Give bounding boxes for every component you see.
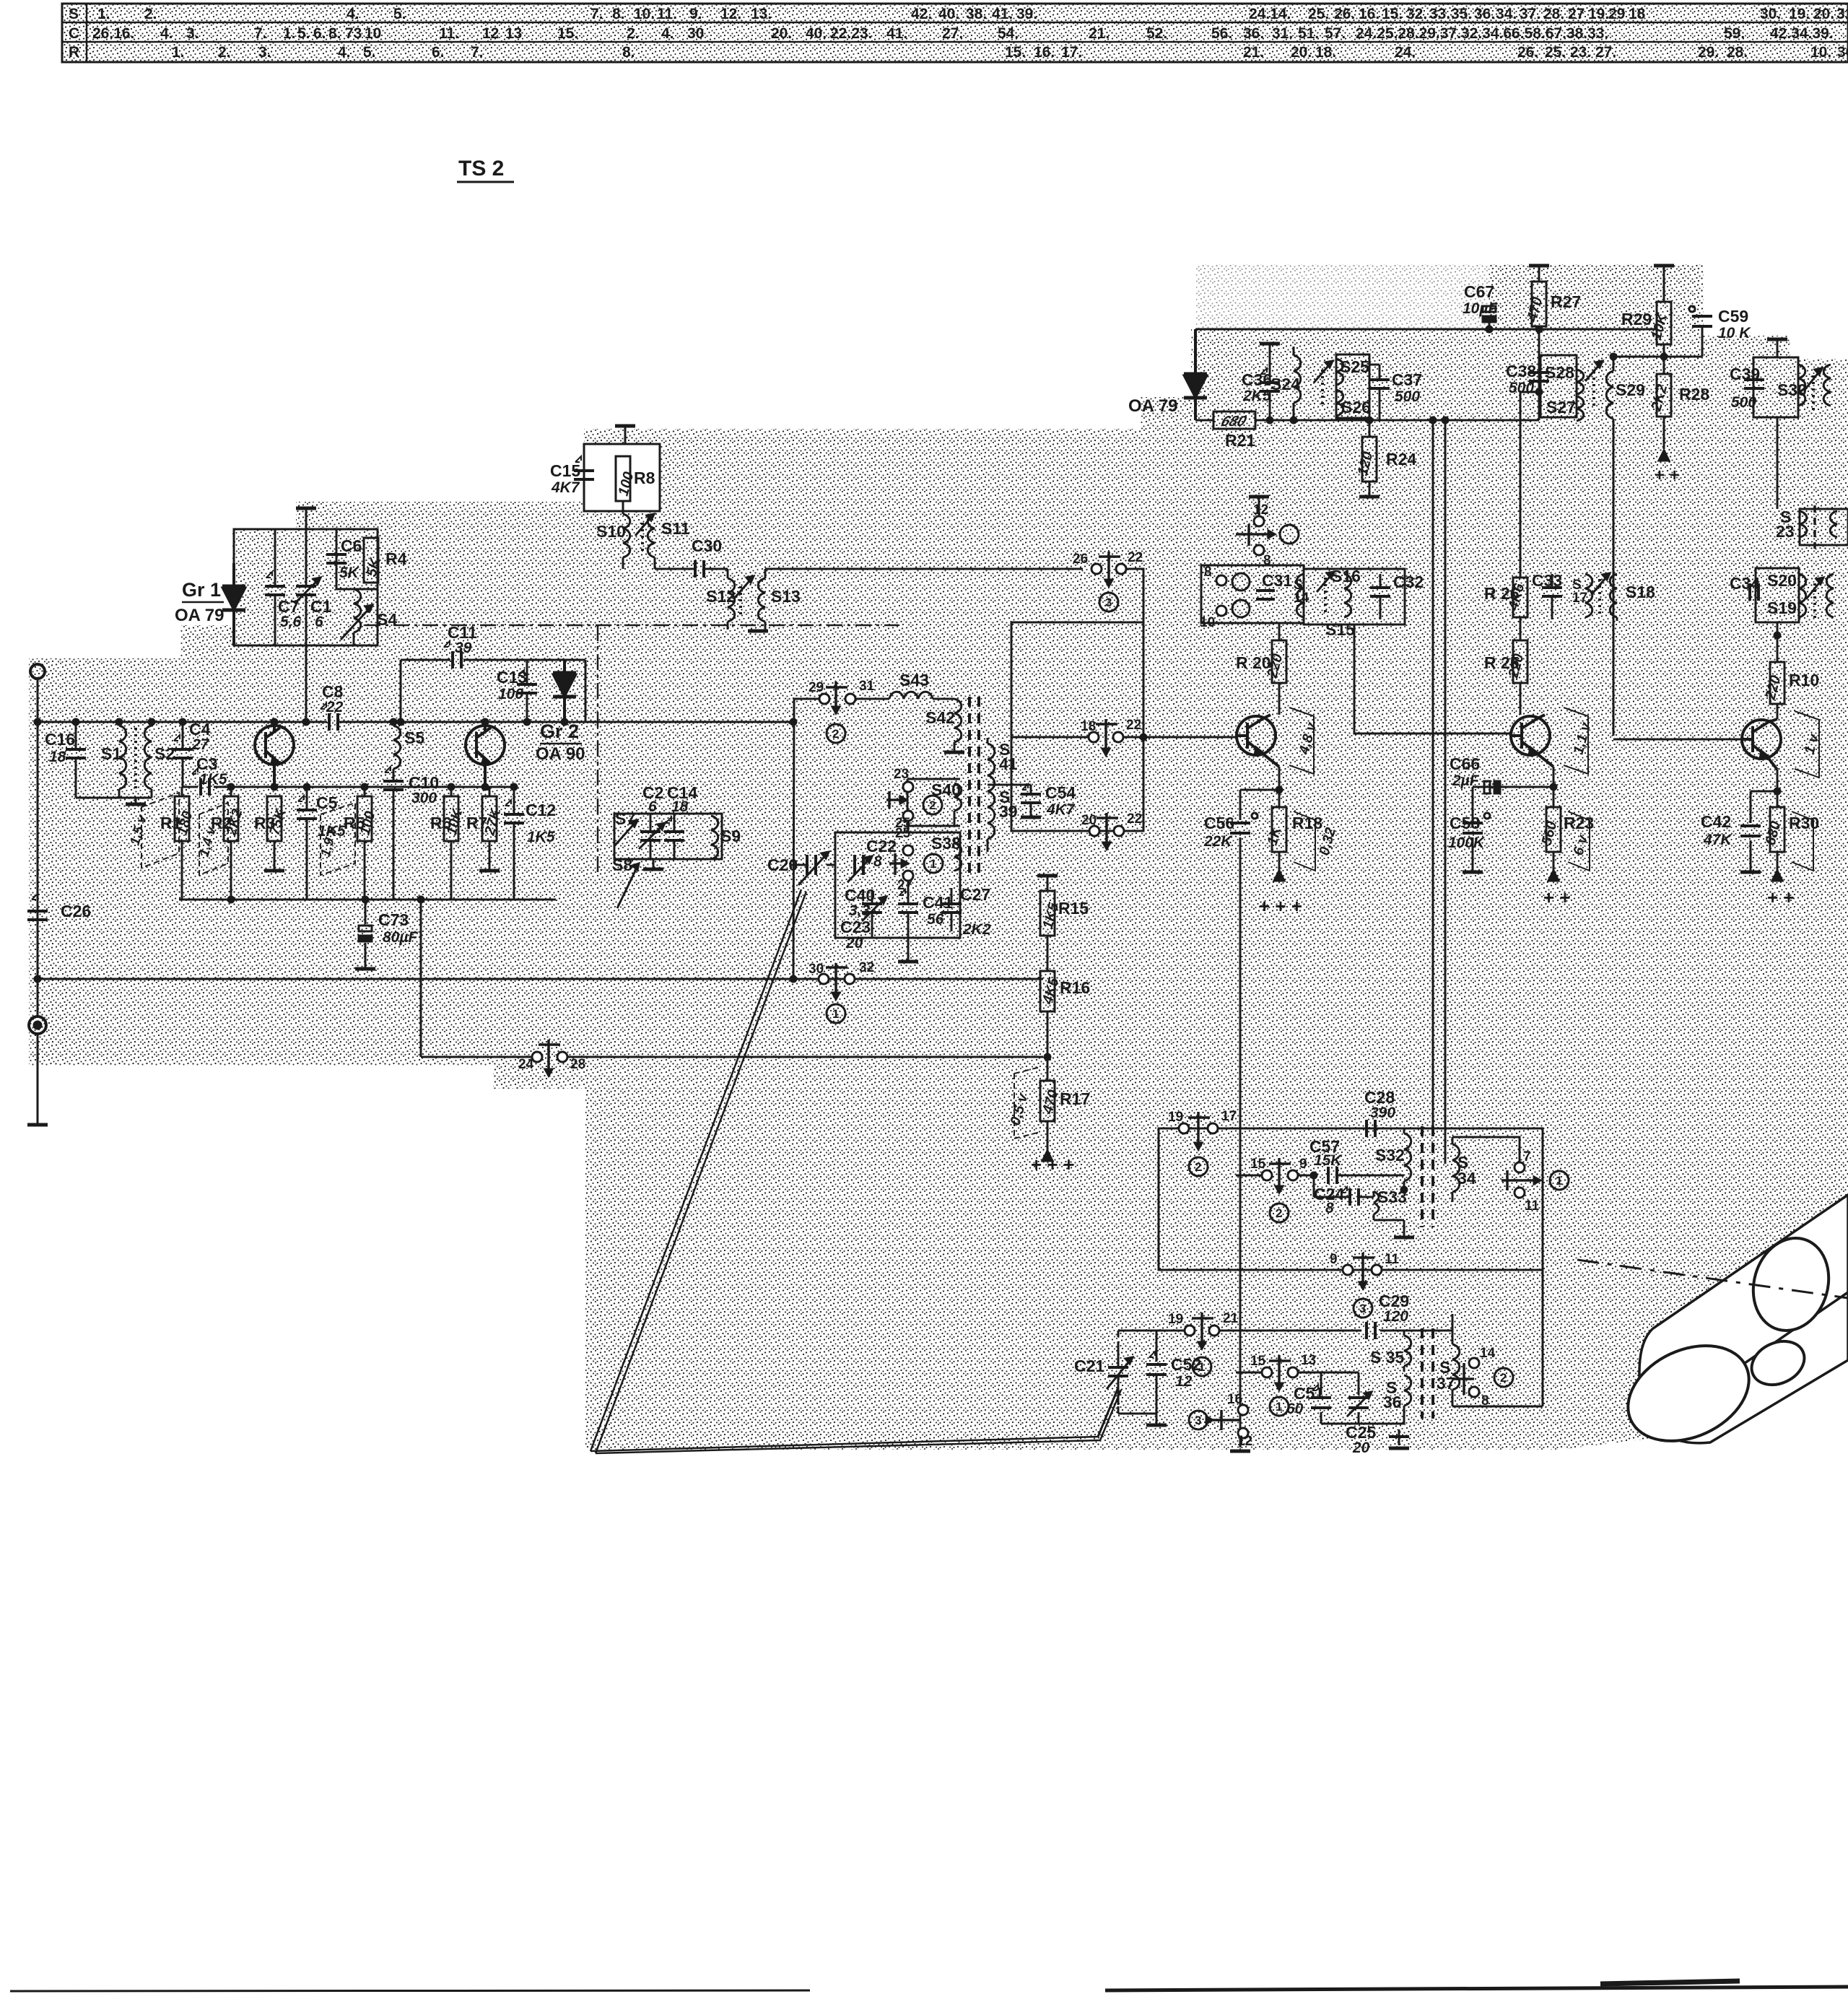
svg-text:35.: 35. (1451, 6, 1472, 22)
svg-text:4.: 4. (160, 25, 173, 42)
svg-text:11: 11 (1525, 1198, 1540, 1214)
svg-text:1: 1 (1556, 1174, 1562, 1188)
contact 24 (532, 1052, 542, 1062)
svg-text:C20: C20 (767, 856, 798, 874)
capacitor C3 (series) (199, 778, 202, 796)
svg-text:6: 6 (648, 798, 657, 815)
svg-text:5.: 5. (393, 6, 406, 22)
svg-text:2: 2 (832, 727, 839, 741)
transistor Q1 (255, 726, 294, 765)
svg-text:C32: C32 (1393, 573, 1424, 591)
ground below S33 (1403, 1220, 1405, 1236)
svg-text:10µF: 10µF (1463, 300, 1498, 317)
capacitor C73 electrolytic (365, 900, 367, 967)
svg-text:1K5: 1K5 (199, 771, 227, 788)
svg-text:25.: 25. (1308, 6, 1329, 22)
svg-text:12: 12 (1175, 1373, 1193, 1390)
wire 15/9 row (1236, 1175, 1314, 1177)
svg-text:S26: S26 (1341, 398, 1371, 417)
wire from box bottom to rail (305, 645, 308, 722)
coil S1 (119, 726, 126, 789)
svg-text:2: 2 (929, 798, 936, 812)
switch arrow S17/S18 (1592, 573, 1610, 593)
svg-text:S30: S30 (1777, 380, 1807, 399)
svg-text:C31: C31 (1262, 571, 1292, 590)
svg-text:40.: 40. (806, 25, 827, 42)
svg-text:1.: 1. (283, 25, 296, 42)
circled 1a (1550, 1171, 1569, 1190)
svg-text:22: 22 (326, 699, 344, 715)
box S20/S19 (1756, 568, 1799, 622)
capacitor C11 (series) (451, 651, 454, 669)
transformer core dashes (968, 697, 971, 874)
measure quad Q4 (1564, 708, 1588, 774)
svg-text:36.: 36. (1243, 25, 1264, 42)
wire R29 row (1613, 326, 1702, 374)
wires around C21/C52 (1118, 1331, 1164, 1424)
wire left vertical rail (37, 679, 39, 1016)
outer box S32 block (1159, 1128, 1543, 1451)
resistor R2 (224, 796, 238, 841)
contact 8b (1216, 575, 1226, 585)
svg-text:S18: S18 (1626, 583, 1655, 601)
svg-text:R18: R18 (1292, 814, 1322, 832)
svg-text:8: 8 (1481, 1393, 1489, 1409)
svg-text:R10: R10 (1789, 671, 1819, 689)
svg-text:39: 39 (999, 802, 1018, 821)
resistor R30 (1770, 807, 1784, 852)
svg-text:500: 500 (1509, 380, 1534, 396)
resistor R1 (175, 796, 189, 841)
axis dash leader (1577, 1260, 1848, 1298)
Gr2 box (401, 660, 585, 722)
wire stub below chassis (37, 1034, 39, 1123)
capacitor C36 (1269, 360, 1271, 420)
capacitor C26 (37, 895, 39, 939)
svg-text:15.: 15. (1005, 44, 1026, 61)
svg-text:C38: C38 (1506, 362, 1536, 380)
wire 29/31 row (793, 699, 889, 979)
svg-text:26.16.: 26.16. (92, 25, 134, 42)
svg-text:73: 73 (345, 25, 362, 42)
svg-text:23.: 23. (1570, 44, 1591, 61)
svg-text:8: 8 (873, 853, 882, 870)
table row C numbers (92, 25, 1834, 42)
lower box S35 block (1159, 1331, 1543, 1406)
capacitor C33 (1551, 574, 1553, 619)
ground below block (653, 859, 655, 868)
svg-text:18: 18 (1081, 719, 1096, 734)
svg-text:C30: C30 (692, 536, 722, 555)
svg-text:1: 1 (1198, 1360, 1205, 1374)
svg-text:300: 300 (411, 790, 437, 806)
svg-text:100: 100 (498, 686, 523, 702)
svg-text:+ +: + + (1543, 887, 1571, 908)
coil S4 with arrow (354, 589, 361, 645)
svg-text:47K: 47K (1703, 832, 1732, 848)
svg-text:2: 2 (1500, 1371, 1507, 1385)
gang link horizontal to C21 (590, 1388, 1121, 1453)
svg-text:30.: 30. (1837, 44, 1848, 61)
capacitor C31 (1256, 589, 1275, 592)
ground below C54 (1021, 816, 1041, 819)
svg-text:C15: C15 (550, 461, 580, 480)
svg-text:4.: 4. (346, 6, 359, 22)
capacitor C25 (1398, 1424, 1400, 1435)
ground below S42 (944, 751, 964, 754)
svg-text:3,3: 3,3 (849, 902, 871, 919)
capacitor C37 (1369, 378, 1390, 381)
svg-text:6.: 6. (313, 25, 326, 42)
winding ring 2 large (1613, 1327, 1764, 1459)
svg-text:2: 2 (1276, 1206, 1282, 1220)
coil S16/S15 (1344, 574, 1351, 617)
svg-text:31: 31 (859, 679, 875, 694)
winding ring 3 small (1745, 1333, 1812, 1393)
TS 2 heading (457, 157, 514, 182)
contact 9a (1288, 1170, 1298, 1180)
coil S32 (1404, 1128, 1411, 1190)
capacitor C51 (1321, 1372, 1359, 1424)
wire from rail down to 24/28 row (421, 900, 1043, 1057)
svg-text:C12: C12 (526, 801, 556, 819)
capacitor C52 (1146, 1363, 1167, 1366)
svg-text:37: 37 (1437, 1374, 1455, 1393)
contact 19b (1185, 1325, 1195, 1336)
svg-text:2µF: 2µF (1452, 772, 1480, 789)
resistor R27 (1532, 282, 1546, 326)
ground above C15 box (624, 427, 627, 444)
svg-text:S4: S4 (377, 610, 397, 629)
capacitor C41 (907, 881, 910, 938)
contact 31 (845, 694, 855, 704)
svg-text:R30: R30 (1789, 814, 1819, 832)
capacitor C59 (1689, 306, 1695, 312)
svg-text:34.: 34. (1496, 6, 1517, 22)
table row S numbers (97, 6, 1848, 22)
contact 30 (819, 974, 829, 984)
svg-text:11.: 11. (657, 6, 677, 22)
svg-text:15.: 15. (557, 25, 578, 42)
contact switch bar 18/22 (1096, 719, 1117, 755)
core dashes S32/S34 (1421, 1126, 1424, 1227)
svg-text:25.: 25. (1545, 44, 1566, 61)
long vertical feed wires (1433, 420, 1445, 1164)
svg-text:24.14.: 24.14. (1249, 6, 1291, 22)
svg-text:42.34.39.: 42.34.39. (1770, 25, 1834, 42)
svg-text:C33: C33 (1532, 571, 1562, 590)
winding ring 1 (1743, 1229, 1839, 1339)
circled 2 (1232, 600, 1250, 617)
svg-text:8: 8 (1325, 1200, 1334, 1216)
bottom rule left (10, 1990, 810, 1991)
svg-text:R17: R17 (1060, 1089, 1090, 1108)
resistor R20 (1272, 640, 1286, 683)
svg-text:S 35: S 35 (1370, 1348, 1405, 1367)
dash-dot switch link S4 to S12 (365, 624, 899, 627)
svg-text:51.: 51. (1298, 25, 1319, 42)
contact 25 (903, 811, 913, 821)
capacitor C21 variable (1118, 1331, 1164, 1414)
svg-text:OA 90: OA 90 (536, 744, 585, 764)
svg-text:S33: S33 (1377, 1188, 1407, 1206)
coil S25 (1336, 359, 1343, 385)
svg-text:1K5: 1K5 (527, 829, 555, 845)
bottom page edge lines (10, 1981, 1848, 1991)
capacitor C14 (674, 814, 676, 859)
svg-text:C37: C37 (1392, 370, 1422, 389)
svg-text:21.: 21. (1243, 44, 1264, 61)
svg-text:20.: 20. (1813, 6, 1834, 22)
coil S10 (623, 514, 630, 569)
svg-text:S: S (69, 6, 79, 22)
svg-text:8: 8 (1263, 553, 1271, 568)
contact 32 (845, 974, 855, 984)
svg-text:8.: 8. (328, 25, 341, 42)
contact switch bar 26/22 (1099, 552, 1120, 586)
contact 22a (1116, 564, 1126, 574)
svg-text:8.: 8. (622, 44, 635, 61)
ground (27, 1123, 48, 1127)
svg-text:15.: 15. (1382, 6, 1403, 22)
capacitor C7 (274, 529, 276, 645)
box S38/S40 contacts (907, 779, 960, 826)
svg-text:1: 1 (1276, 1400, 1282, 1414)
svg-text:21.: 21. (1089, 25, 1110, 42)
++ below R23 (1548, 871, 1559, 881)
transformer core S1/S2 (134, 728, 137, 791)
ground above Gr1 box (305, 510, 308, 529)
svg-text:9: 9 (1330, 1252, 1338, 1267)
svg-text:R29: R29 (1621, 310, 1652, 328)
wire box to R10 (1777, 622, 1779, 662)
svg-text:9: 9 (1299, 1157, 1307, 1172)
svg-text:39.: 39. (1016, 6, 1037, 22)
svg-text:17.: 17. (1061, 44, 1082, 61)
coil S33 (1374, 1191, 1404, 1220)
svg-text:54.: 54. (998, 25, 1019, 42)
svg-text:18: 18 (1629, 6, 1646, 22)
measure quad R30 (1792, 811, 1813, 871)
capacitor C66 electrolytic (1553, 767, 1555, 807)
svg-text:80µF: 80µF (383, 929, 418, 946)
capacitor C4 (182, 722, 184, 787)
svg-text:16.: 16. (1359, 6, 1380, 22)
svg-text:C13: C13 (497, 668, 527, 687)
table row R numbers (172, 44, 1848, 61)
circled 3a (1354, 1299, 1372, 1318)
wire S18 down to Q5 base (1613, 624, 1742, 736)
resistor R4 (364, 538, 378, 583)
svg-text:6: 6 (315, 614, 323, 630)
svg-text:S2: S2 (154, 744, 175, 763)
node A (35, 719, 40, 725)
contact 29 (819, 694, 829, 704)
svg-text:S20: S20 (1767, 571, 1797, 590)
resistor R23 (1546, 807, 1561, 852)
contact 28 (557, 1052, 567, 1062)
measure quad Q3 (1289, 708, 1314, 774)
svg-text:S7: S7 (615, 809, 635, 828)
wire S34 top to 7 (1452, 1137, 1520, 1162)
svg-text:30.: 30. (1760, 6, 1781, 22)
svg-text:6.: 6. (432, 44, 445, 61)
svg-text:27: 27 (897, 878, 912, 893)
capacitor C6 (326, 553, 346, 556)
contact switch bar 20/22 (1097, 813, 1118, 849)
switch arrow S12/S13 (733, 576, 754, 599)
box S28/S27 (1540, 355, 1577, 417)
capacitor C38 (1529, 371, 1549, 374)
capacitor C39 (1744, 378, 1764, 381)
capacitor C57 (series) (1327, 1167, 1330, 1184)
svg-text:2K5: 2K5 (1242, 388, 1271, 404)
box S23 (1800, 509, 1848, 545)
ground above R27 (1529, 264, 1549, 268)
contact arrow (886, 791, 902, 809)
transistor Q2 (466, 726, 505, 765)
ground below R24 (1359, 495, 1380, 499)
svg-text:C27: C27 (960, 885, 990, 904)
ground below box (907, 938, 910, 960)
coil S31 edge (1823, 365, 1831, 406)
ferrite rod body (1639, 1195, 1848, 1443)
svg-text:120: 120 (1383, 1308, 1408, 1325)
coil S30 (1798, 365, 1805, 406)
contact 9b (1343, 1265, 1353, 1275)
svg-text:12.: 12. (720, 6, 741, 22)
coil S43 (889, 692, 954, 699)
svg-text:30: 30 (808, 962, 824, 977)
svg-text:+ +: + + (1767, 887, 1795, 908)
svg-text:26.: 26. (1517, 44, 1538, 61)
svg-text:20.: 20. (771, 25, 792, 42)
svg-text:12: 12 (1237, 1434, 1252, 1449)
svg-text:S38: S38 (931, 834, 961, 853)
circled 2 (827, 724, 943, 1023)
svg-text:52.: 52. (1146, 25, 1167, 42)
ground below R3 (264, 869, 284, 873)
capacitor C1 (trimmer) (305, 529, 308, 645)
coil S35 (1404, 1331, 1411, 1372)
+++ below R18 (1274, 871, 1284, 881)
wire bottom rail y1356 (38, 978, 1043, 980)
svg-text:S43: S43 (899, 671, 929, 689)
capacitor C20 variable (790, 864, 835, 866)
svg-text:22: 22 (1127, 811, 1142, 827)
wire S15 down and right (1354, 624, 1510, 736)
svg-text:22.23.: 22.23. (830, 25, 872, 42)
+++ below R17 (1042, 1151, 1052, 1161)
svg-text:1: 1 (930, 857, 936, 871)
transistor Q4 (1511, 716, 1550, 755)
ground below C58 (1463, 871, 1483, 874)
measure quad Q5 (1795, 711, 1819, 778)
coil S29 (1606, 357, 1613, 448)
svg-text:S29: S29 (1616, 380, 1645, 399)
svg-text:9.: 9. (689, 6, 702, 22)
svg-text:13: 13 (505, 25, 522, 42)
svg-text:60: 60 (1286, 1401, 1304, 1417)
contact 13 (1288, 1367, 1298, 1377)
contact bar 14/8 (1454, 1363, 1474, 1395)
capacitor C13 (526, 660, 528, 722)
core dashes S35/S37 (1421, 1328, 1424, 1419)
svg-text:8.: 8. (612, 6, 625, 22)
diode OA79 fm (1194, 329, 1197, 420)
circled 2b (1270, 1203, 1289, 1222)
svg-text:10: 10 (1200, 615, 1215, 630)
svg-text:5.: 5. (363, 44, 376, 61)
svg-text:24.: 24. (1395, 44, 1416, 61)
capacitor C16 (75, 722, 77, 798)
svg-text:23: 23 (894, 767, 909, 782)
svg-text:4K7: 4K7 (551, 479, 580, 496)
svg-text:41.: 41. (992, 6, 1013, 22)
contact 21 (1209, 1325, 1219, 1336)
svg-text:3: 3 (1105, 596, 1112, 609)
resistor R3 (267, 796, 282, 841)
svg-text:29.: 29. (1698, 44, 1719, 61)
switch arrow S10/S11 (635, 514, 654, 536)
svg-text:C58: C58 (1450, 814, 1480, 832)
wire 15/13 row (1236, 1372, 1321, 1374)
coil S36 (1404, 1375, 1411, 1416)
coil S20/S19 (1799, 574, 1806, 617)
capacitor C30 (series) (694, 560, 697, 578)
svg-text:24: 24 (518, 1057, 534, 1072)
oscillator block box S7/S8/S9 (614, 814, 722, 859)
svg-text:S12: S12 (706, 587, 736, 606)
svg-text:TS 2: TS 2 (458, 157, 504, 180)
wire C30 to S12 (704, 568, 728, 570)
resistor R24 (1362, 437, 1377, 482)
svg-text:C26: C26 (61, 902, 91, 920)
svg-text:C54: C54 (1045, 783, 1076, 802)
contact 12b (1238, 1428, 1248, 1438)
svg-text:7.: 7. (254, 25, 267, 42)
measure quad R18 (1294, 811, 1315, 871)
labels mid-right (1200, 502, 1655, 917)
svg-text:7.: 7. (590, 6, 603, 22)
contact 20 (1089, 826, 1099, 836)
svg-text:R8: R8 (634, 469, 655, 487)
svg-text:R24: R24 (1386, 450, 1416, 469)
coil S12 (728, 569, 735, 630)
svg-text:28.: 28. (1543, 6, 1564, 22)
svg-text:R28: R28 (1679, 385, 1709, 404)
svg-text:C67: C67 (1464, 282, 1494, 301)
coil S22 edge (1826, 574, 1834, 617)
resistor R16 (1040, 971, 1055, 1011)
circled 3b (1189, 1411, 1208, 1429)
capacitor C24 (1314, 1175, 1374, 1197)
switch arrow S30/S31 (1805, 368, 1822, 390)
svg-text:R23: R23 (1564, 814, 1594, 832)
wire 22a to box (1126, 569, 1143, 622)
svg-text:4.: 4. (661, 25, 674, 42)
measurement parallelogram P1 (141, 793, 355, 875)
resistor R7 (482, 796, 497, 841)
svg-text:+ + +: + + + (1259, 895, 1302, 917)
chassis terminal double circle (29, 1016, 46, 1034)
coil S13 (748, 569, 755, 630)
labels far right (1701, 571, 1819, 908)
diode Gr1 OA79 (232, 563, 235, 645)
wire 25 contact down (907, 821, 910, 832)
coil S11 (648, 514, 655, 569)
contact 8a (1254, 545, 1264, 555)
